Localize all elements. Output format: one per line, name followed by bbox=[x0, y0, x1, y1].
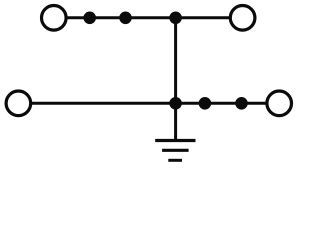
wire vertical tie (upper junction to ground) bbox=[174, 18, 177, 141]
junction node lower (tie to vertical wire) bbox=[169, 97, 182, 110]
ground bar 3 bottom bbox=[168, 159, 182, 162]
clamping point dot B (upper rail) bbox=[119, 11, 132, 24]
terminal 2.2 lower-right (open circle) bbox=[267, 91, 292, 116]
terminal 1.1 upper-left (open circle) bbox=[42, 5, 67, 30]
junction node upper (tie to vertical wire) bbox=[169, 11, 182, 24]
terminal 2.1 lower-left (open circle) bbox=[6, 91, 31, 116]
clamping point dot D (lower rail) bbox=[235, 97, 248, 110]
clamping point dot A (upper rail) bbox=[83, 11, 96, 24]
terminal 1.2 upper-right (open circle) bbox=[230, 5, 255, 30]
clamping point dot C (lower rail) bbox=[199, 97, 212, 110]
wire lower rail (left terminal to right terminal) bbox=[31, 102, 266, 105]
ground bar 2 middle bbox=[162, 149, 189, 152]
ground (PE earth symbol) bar 1 top bbox=[155, 139, 195, 142]
wire upper rail (left terminal to right terminal) bbox=[67, 16, 230, 19]
